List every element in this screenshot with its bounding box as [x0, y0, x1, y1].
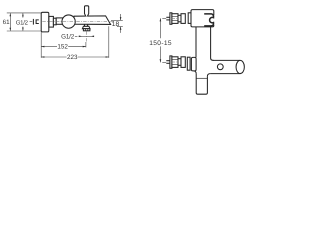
svg-text:G1/2: G1/2 [61, 33, 75, 40]
svg-text:18: 18 [112, 21, 120, 28]
svg-text:150-15: 150-15 [149, 40, 172, 47]
svg-text:G1/2: G1/2 [16, 19, 29, 26]
svg-text:61: 61 [3, 19, 11, 26]
svg-text:223: 223 [67, 54, 78, 61]
svg-text:152: 152 [57, 44, 68, 51]
